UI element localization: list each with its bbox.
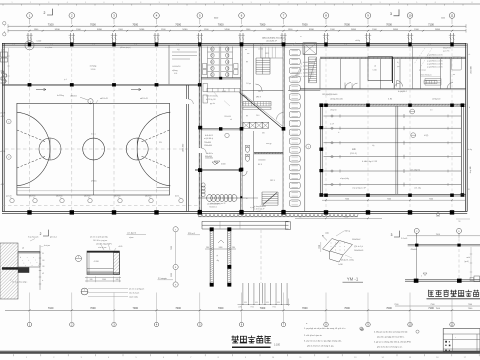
svg-text:4: 4 — [232, 2, 233, 4]
annotation fan cluster x285-330 — [288, 61, 314, 78]
svg-text:100: 100 — [42, 260, 45, 262]
svg-text:7000: 7000 — [302, 22, 308, 26]
svg-text:7000: 7000 — [344, 307, 350, 310]
svg-text:zL 1 jfg zt 4: zL 1 jfg zt 4 — [127, 232, 136, 235]
YM-1 title — [343, 276, 364, 282]
detail A hatched wall section — [0, 243, 40, 299]
svg-text:JL70: JL70 — [1, 50, 5, 52]
svg-text:sn sj zhao: sn sj zhao — [45, 47, 52, 49]
svg-text:7500: 7500 — [171, 246, 173, 250]
svg-text:at (tL E4 x): at (tL E4 x) — [204, 137, 214, 140]
svg-text:7: 7 — [288, 2, 289, 4]
svg-text:1F2(S)&(M)100x60: 1F2(S)&(M)100x60 — [322, 94, 337, 96]
svg-text:6: 6 — [104, 2, 105, 4]
svg-text:xx: xx — [300, 36, 302, 38]
svg-text:hf (2): hf (2) — [424, 135, 429, 137]
svg-text:7500: 7500 — [429, 198, 433, 200]
svg-text:2500: 2500 — [171, 273, 173, 277]
svg-text:9: 9 — [324, 2, 325, 4]
svg-text:dskj (271m): dskj (271m) — [443, 48, 451, 50]
pipe line right of coil — [247, 197, 258, 199]
svg-text:7000: 7000 — [90, 307, 96, 310]
svg-text:7100: 7100 — [48, 22, 54, 26]
svg-text:5200: 5200 — [55, 29, 61, 31]
svg-text:tk.(ab)E4-1: tk.(ab)E4-1 — [398, 90, 407, 93]
svg-text:280: 280 — [232, 247, 235, 249]
svg-text:ys gd DN100x xL 0.5%: ys gd DN100x xL 0.5% — [427, 67, 443, 69]
svg-text:7000: 7000 — [175, 307, 181, 310]
svg-text:7100: 7100 — [428, 22, 434, 26]
right edge outside labels — [468, 54, 473, 191]
svg-text:450: 450 — [277, 302, 280, 304]
stair C lower — [262, 192, 278, 205]
svg-text:8: 8 — [472, 2, 473, 4]
svg-text:nan gy: nan gy — [266, 143, 271, 145]
svg-text:7: 7 — [453, 2, 454, 4]
sheet top ruler line — [0, 2, 480, 6]
grid bubbles top row — [27, 13, 455, 25]
left three point arc — [17, 112, 50, 186]
locker X boxes row — [243, 122, 269, 128]
svg-text:C-4: C-4 — [92, 44, 95, 46]
texts near bottom wall middle — [209, 202, 255, 209]
detail B keynote circle — [76, 256, 82, 262]
svg-text:0.00: 0.00 — [174, 73, 177, 75]
column stubs above wall — [26, 33, 455, 43]
svg-text:5.100: 5.100 — [373, 69, 377, 71]
svg-text:7500: 7500 — [436, 234, 440, 236]
svg-text:5200: 5200 — [225, 29, 231, 31]
svg-text:gy shi: gy shi — [210, 103, 216, 105]
svg-text:7000: 7000 — [344, 22, 350, 26]
svg-text:jian: jian — [396, 66, 400, 68]
fan room partition x169 — [7, 45, 197, 84]
hall bottom wall — [320, 194, 466, 196]
svg-text:ab1 E41: ab1 E41 — [56, 196, 63, 198]
svg-text:750x600 zk: 750x600 zk — [209, 207, 217, 209]
notes right block — [374, 330, 419, 348]
text block below stair C — [254, 206, 266, 213]
hall top annotations — [322, 90, 440, 101]
svg-text:(7100): (7100) — [91, 181, 97, 183]
svg-text:7750: 7750 — [272, 307, 276, 309]
svg-text:240: 240 — [90, 279, 93, 281]
svg-text:24.0: 24.0 — [256, 115, 259, 117]
stair A upper — [256, 58, 270, 74]
svg-text:dfg: dfg — [217, 260, 219, 262]
section symbol 2 bottom — [40, 230, 58, 239]
svg-text:1:8 po: 1:8 po — [246, 83, 251, 85]
wall y153 hatched — [254, 152, 283, 153]
svg-text:7750: 7750 — [250, 307, 254, 309]
left exterior wall — [2, 43, 4, 211]
svg-text:8: 8 — [140, 2, 141, 4]
left edge stair and pits — [1, 50, 8, 83]
svg-text:wd: wd — [22, 248, 24, 250]
svg-text:rjm 1:1 sn sj bh jam hfg: rjm 1:1 sn sj bh jam hfg — [90, 236, 108, 239]
svg-text:4: 4 — [398, 2, 399, 4]
svg-text:zb 5.4: zb 5.4 — [0, 113, 5, 115]
svg-text:5: 5 — [8, 121, 9, 123]
svg-text:1200x600: 1200x600 — [224, 116, 231, 118]
svg-text:1-1 xt-1: 1-1 xt-1 — [401, 237, 407, 240]
basement axes verticals — [417, 233, 459, 281]
detail B dims below — [85, 276, 121, 282]
svg-text:zfj fang: zfj fang — [172, 70, 178, 72]
svg-text:xx(k): xx(k) — [325, 233, 329, 235]
svg-text:zL 100: zL 100 — [258, 49, 263, 51]
basement wall 2 — [405, 279, 480, 283]
svg-text:280: 280 — [206, 247, 209, 249]
svg-text:b s c: b s c — [91, 134, 95, 136]
locker room mid — [201, 77, 240, 131]
svg-text:450: 450 — [266, 302, 269, 304]
hall expansion joint — [396, 106, 398, 194]
svg-text:gy: gy — [246, 61, 248, 63]
svg-text:2: 2 — [40, 232, 42, 236]
svg-text:3: 3 — [380, 2, 381, 4]
svg-text:3. jzw nei cL jn bu k z pq zhg: 3. jzw nei cL jn bu k z pq zhgL shang s4… — [304, 341, 342, 343]
svg-text:ys gd DN100x xL 0.5%: ys gd DN100x xL 0.5% — [427, 55, 443, 57]
svg-text:3: 3 — [48, 2, 49, 4]
svg-text:2F1 9: 2F1 9 — [258, 91, 263, 93]
doors on wall y89 — [352, 83, 400, 89]
svg-text:ab1 E41: ab1 E41 — [145, 196, 152, 198]
svg-text:zL: zL — [469, 54, 471, 56]
svg-text:5.100: 5.100 — [37, 41, 42, 43]
svg-text:5200: 5200 — [182, 29, 188, 31]
svg-text:C-4: C-4 — [428, 44, 431, 46]
svg-text:2: 2 — [8, 157, 9, 159]
svg-text:6: 6 — [269, 2, 270, 4]
twin wall strips hatched — [210, 227, 232, 286]
svg-text:ys gd DN100x xL 0.5%: ys gd DN100x xL 0.5% — [427, 58, 443, 60]
svg-text:2(M)L (tL)E4(S) 250x120x: 2(M)L (tL)E4(S) 250x120x — [262, 37, 284, 40]
middle block misc texts — [222, 49, 275, 201]
svg-text:2: 2 — [44, 11, 46, 15]
dimension row 2 — [8, 29, 466, 33]
middle block column blacks — [198, 42, 285, 213]
basketball court boundary — [17, 103, 170, 195]
dimension row 1 — [8, 22, 466, 28]
svg-text:zk 2F: zk 2F — [330, 124, 334, 126]
left dim flags — [3, 22, 6, 37]
room texts y110-120 — [246, 113, 284, 120]
svg-text:7000: 7000 — [132, 22, 138, 26]
svg-text:1. pq zhgL wt sd jn dzk x bu m: 1. pq zhgL wt sd jn dzk x bu mozj, tfL y… — [304, 327, 345, 330]
svg-text:zk hfg 120: zk hfg 120 — [432, 99, 440, 101]
svg-text:1: 1 — [343, 2, 344, 4]
svg-text:C-4: C-4 — [344, 44, 347, 46]
marks below plan right corner — [456, 219, 470, 223]
top strip right rooms walls — [320, 57, 466, 88]
horizontal dashed court centerline — [5, 148, 190, 150]
svg-text:2: 2 — [361, 2, 362, 4]
svg-text:hfg: hfg — [372, 145, 374, 147]
mid-top room details x244-300 — [247, 47, 283, 59]
svg-text:5: 5 — [416, 2, 417, 4]
svg-text:750: 750 — [299, 217, 302, 219]
wall y90 extension right — [288, 90, 320, 92]
svg-text:-0.05: -0.05 — [0, 116, 4, 118]
twin strips dims — [205, 240, 236, 262]
section symbol 3 bottom — [391, 231, 408, 240]
parking car column — [289, 50, 300, 207]
svg-text:7000: 7000 — [218, 307, 224, 310]
notes center block — [304, 323, 363, 347]
svg-text:7000: 7000 — [260, 22, 266, 26]
svg-text:1F19: 1F19 — [265, 53, 269, 55]
horizontal dashed line below court — [2, 205, 200, 207]
svg-text:d: d — [78, 257, 79, 259]
sheet bottom bar — [0, 350, 480, 359]
svg-text:(7)tL zk 1 jk: (7)tL zk 1 jk — [354, 245, 363, 248]
court center line — [93, 103, 95, 195]
svg-text:xt jam: xt jam — [129, 236, 134, 239]
svg-text:11: 11 — [451, 14, 454, 18]
svg-text:zf ktp 60: zf ktp 60 — [330, 109, 336, 112]
basement right dim column — [470, 247, 472, 279]
svg-text:jzfw k zhu bu k zhi fang tu an: jzfw k zhu bu k zhi fang tu an. — [376, 345, 403, 348]
svg-text:jin 4: jin 4 — [63, 79, 67, 81]
court lower parallel line — [17, 190, 170, 192]
svg-text:zd ktfg: zd ktfg — [355, 39, 360, 42]
stairwell room partitions — [394, 46, 412, 89]
svg-text:6: 6 — [435, 2, 436, 4]
bottom exterior wall — [2, 211, 467, 213]
svg-text:de 11: de 11 — [175, 196, 179, 198]
svg-text:4: 4 — [67, 2, 68, 4]
svg-text:(po xiang): (po xiang) — [419, 70, 426, 72]
grille comb detail — [243, 283, 287, 304]
svg-text:7000: 7000 — [260, 307, 266, 310]
small ladder on wall y89 — [424, 80, 437, 83]
svg-text:2 0: 2 0 — [430, 110, 432, 112]
door gaps in corridor walls — [186, 99, 207, 153]
svg-text:5: 5 — [421, 275, 422, 277]
svg-text:200x200x20: 200x200x20 — [354, 250, 363, 252]
svg-text:(dh ban jian js): (dh ban jian js) — [120, 47, 131, 49]
svg-text:10: 10 — [408, 14, 412, 18]
svg-text:fs sj zhao jam: fs sj zhao jam — [28, 237, 39, 239]
baseline tick lines — [17, 186, 30, 188]
svg-text:7100: 7100 — [48, 307, 54, 310]
svg-text:7: 7 — [122, 2, 123, 4]
storeroom with thick walls — [368, 57, 393, 84]
dimension line y218 below wall — [295, 213, 440, 220]
svg-text:150: 150 — [42, 266, 45, 268]
svg-text:1: 1 — [177, 2, 178, 4]
svg-text:C-4: C-4 — [50, 44, 53, 46]
svg-text:ab1 E-41: ab1 E-41 — [140, 98, 148, 100]
ramp canopy lines — [202, 221, 291, 283]
svg-text:C-4: C-4 — [218, 44, 221, 46]
wall y89 right part — [300, 89, 466, 90]
svg-text:2: 2 — [196, 2, 197, 4]
svg-text:xx(g): xx(g) — [319, 245, 321, 249]
svg-text:2. zhL jt bu k jian tu.: 2. zhL jt bu k jian tu. — [304, 334, 323, 337]
wash basins — [203, 64, 239, 75]
title block table — [443, 329, 480, 352]
svg-text:fs-1Dlxy: fs-1Dlxy — [57, 95, 64, 97]
svg-text:5400: 5400 — [441, 18, 445, 20]
hall top wall — [320, 104, 466, 106]
svg-text:750x600: 750x600 — [204, 142, 211, 144]
svg-text:Lrl 400x250: Lrl 400x250 — [172, 66, 180, 68]
right exterior wall — [466, 43, 468, 211]
svg-text:ck fang: ck fang — [90, 66, 96, 68]
right room fixtures — [450, 57, 461, 89]
detail circle column A1 — [25, 41, 41, 50]
annotations above court — [96, 98, 148, 103]
svg-text:2: 2 — [30, 2, 31, 4]
svg-text:5200: 5200 — [393, 29, 399, 31]
svg-text:5.100: 5.100 — [91, 69, 96, 71]
wall y90 middle block — [242, 84, 284, 91]
svg-text:7500: 7500 — [387, 198, 391, 200]
svg-text:3: 3 — [391, 233, 393, 237]
svg-text:7000: 7000 — [218, 22, 224, 26]
svg-text:(21-1.5): (21-1.5) — [350, 153, 357, 155]
svg-text:5: 5 — [251, 2, 252, 4]
svg-text:YM -1: YM -1 — [347, 276, 359, 281]
svg-text:7500: 7500 — [468, 304, 472, 306]
svg-text:5. gjt wu tu zhong, bbz 250, j: 5. gjt wu tu zhong, bbz 250, jL 250 jsf … — [374, 340, 411, 343]
svg-text:7000: 7000 — [386, 22, 392, 26]
basement wall 1 — [408, 244, 480, 251]
corridor fixtures x243-253 — [242, 44, 253, 212]
top strip room labels — [12, 44, 431, 81]
hall bottom dim strip — [322, 198, 466, 201]
svg-text:7500: 7500 — [345, 198, 349, 200]
svg-text:zt jam xt jfg: zt jam xt jfg — [129, 295, 138, 298]
wall y170 middle — [195, 168, 242, 171]
svg-text:tL E4: tL E4 — [388, 98, 392, 101]
right rooms annotation smudges — [414, 48, 443, 77]
corridor wall x305 — [305, 46, 311, 212]
svg-text:6400: 6400 — [214, 18, 218, 20]
svg-text:1F1 9: 1F1 9 — [256, 96, 261, 98]
svg-text:1250-600: 1250-600 — [183, 143, 185, 152]
svg-text:8: 8 — [306, 2, 307, 4]
svg-text:d: d — [469, 107, 470, 109]
svg-text:7500: 7500 — [394, 304, 398, 306]
toilet block walls — [201, 47, 240, 80]
svg-text:zd1 (tL)E4 2F: zd1 (tL)E4 2F — [266, 40, 278, 43]
bottom wall columns — [27, 210, 454, 214]
svg-text:jzfw k zhu bu k zhi fang tL pq: jzfw k zhu bu k zhi fang tL pq. — [306, 344, 334, 347]
detail A dim column — [39, 245, 45, 290]
middle block wall x241 — [241, 44, 243, 212]
svg-text:L=240: L=240 — [338, 264, 343, 266]
svg-text:4. ktfg jun zai bc dout az kon: 4. ktfg jun zai bc dout az kongx 250 (1) — [374, 330, 408, 333]
svg-text:7000: 7000 — [302, 307, 308, 310]
room y130-170 notes — [204, 137, 220, 164]
svg-text:AB1.E4: AB1.E4 — [71, 95, 77, 98]
svg-text:gy: gy — [246, 115, 248, 117]
svg-text:0.600: 0.600 — [221, 164, 226, 166]
svg-text:xf zp q ktfg jn 2.5F: xf zp q ktfg jn 2.5F — [352, 187, 366, 190]
svg-text:1:100: 1:100 — [274, 344, 281, 347]
svg-text:7000: 7000 — [90, 22, 96, 26]
svg-text:5200: 5200 — [267, 29, 273, 31]
detail B bottom callout bubble — [81, 287, 145, 298]
grille dims — [238, 299, 291, 309]
svg-text:5200: 5200 — [97, 29, 103, 31]
svg-text:P95 xt 1: P95 xt 1 — [188, 232, 195, 235]
YM-1 louvre axonometric — [319, 231, 364, 266]
hall right wall — [461, 103, 465, 196]
svg-text:C-4: C-4 — [260, 44, 263, 46]
top wall columns — [28, 42, 454, 46]
svg-text:(7) jfg 2 tL zk hfg: (7) jfg 2 tL zk hfg — [341, 258, 354, 261]
svg-text:C-4: C-4 — [12, 44, 15, 46]
svg-text:wc: wc — [245, 49, 247, 51]
svg-text:ab1 E41: ab1 E41 — [84, 196, 91, 198]
svg-text:(2540) 780(1)-(2): (2540) 780(1)-(2) — [420, 75, 432, 77]
svg-text:5200: 5200 — [435, 29, 441, 31]
left free throw circle — [39, 138, 61, 160]
svg-text:7000: 7000 — [175, 22, 181, 26]
shelf bands — [243, 102, 271, 110]
center circle — [83, 138, 105, 160]
svg-text:abt E4 x: abt E4 x — [206, 152, 213, 155]
long escalator diagonal — [240, 93, 284, 130]
section marker 2 — [44, 9, 53, 16]
detail A leaders — [10, 237, 51, 284]
hall left wall — [319, 103, 323, 196]
staircase right of elevator — [309, 57, 317, 83]
detail B leaders top — [90, 236, 123, 251]
vertical grid dashed lines — [2, 48, 452, 210]
radiator loop coil segment A — [198, 195, 247, 202]
svg-text:10-1 fs zt jam: 10-1 fs zt jam — [129, 291, 140, 294]
vertical dashed axis x261 — [260, 230, 262, 283]
svg-text:ycj 1.77m: ycj 1.77m — [443, 51, 450, 53]
counter below toilet wall — [207, 88, 240, 92]
svg-text:po 124: po 124 — [6, 196, 11, 198]
hall interior labels — [330, 109, 432, 180]
svg-text:-1.200: -1.200 — [93, 261, 98, 263]
court left margin notes — [0, 113, 11, 187]
svg-text:2460: 2460 — [219, 247, 223, 249]
hall grid columns — [324, 104, 454, 197]
svg-text:C-4: C-4 — [134, 44, 137, 46]
svg-text:9: 9 — [159, 2, 160, 4]
top strip right doors and details — [345, 81, 453, 89]
bottom grid bubbles — [27, 311, 454, 326]
svg-text:1F1 9: 1F1 9 — [270, 180, 275, 182]
svg-text:pm xt-1: pm xt-1 — [50, 235, 58, 238]
small text block x128 y232 — [127, 232, 147, 240]
svg-text:xf zp q ktfg: xf zp q ktfg — [340, 177, 349, 180]
svg-text:5200: 5200 — [309, 29, 315, 31]
basement plan title — [427, 290, 480, 299]
left key dashed lines — [17, 130, 46, 142]
interior wall y85 — [2, 83, 202, 86]
svg-text:450: 450 — [244, 302, 247, 304]
svg-text:tL ktE4, hfg tL 2.5F: tL ktE4, hfg tL 2.5F — [362, 160, 378, 163]
texts below coil — [207, 202, 220, 208]
right key dashed lines — [141, 130, 169, 142]
plus marker left of notes — [360, 328, 364, 332]
svg-text:ys gd DN100x xL 0.5%: ys gd DN100x xL 0.5% — [427, 64, 443, 66]
svg-text:600x600: 600x600 — [205, 156, 212, 158]
svg-text:sk: sk — [230, 119, 232, 121]
svg-text:xf zp 100: xf zp 100 — [470, 167, 472, 174]
svg-text:zb 5.4: zb 5.4 — [0, 151, 5, 153]
corridor wall V2 with columns — [198, 44, 202, 212]
